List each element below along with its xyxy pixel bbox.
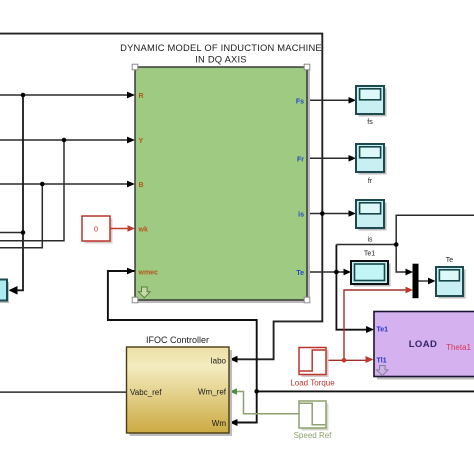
Speed Ref step block [299,401,326,428]
svg-text:Y: Y [139,138,144,145]
wire B branch down-left [0,184,42,248]
svg-text:Te1: Te1 [364,251,375,258]
scope fs [356,86,384,114]
scope fr [356,144,384,172]
arrowhead fs [349,97,357,104]
junction dot Y wire [62,138,67,143]
scope Te1 shadow [354,264,391,287]
induction machine block [135,67,307,300]
arrowhead IFOC Wm_ref green [230,388,238,395]
scope Te [436,267,463,296]
IFOC block shadow [130,350,233,436]
junction dot Te wire [334,270,339,275]
wire Load Torque red [326,290,407,360]
arrowhead IFOC Iabo [230,356,238,363]
wire Y input [0,139,128,141]
wire Fs to scope fs [307,99,350,101]
arrowhead fr [349,155,357,162]
wire mux output to scope Te [419,280,430,282]
arrowhead R [127,92,135,99]
svg-text:R: R [139,93,144,100]
machine badge arrow [139,287,151,298]
induction machine block shadow [138,70,310,303]
wire R input [0,94,128,96]
junction dot R branch [21,230,26,235]
svg-text:Vabc_ref: Vabc_ref [130,388,162,397]
arrowhead left cyan scope [9,286,18,295]
scope fr shadow [359,147,387,175]
constant 0 block [82,216,110,241]
Load Torque step block shadow [302,350,329,377]
wire Wm from off-screen right [257,390,474,392]
svg-text:Te: Te [446,257,454,264]
IFOC block [127,347,230,433]
scope is [356,200,384,228]
left cyan scope block shadow [0,282,9,303]
svg-text:fr: fr [368,178,373,185]
wire Te branch down to LOAD Te1 [336,245,368,330]
svg-text:IFOC Controller: IFOC Controller [146,335,209,345]
scope is shadow [359,203,387,231]
junction dot is wire [320,211,325,216]
arrowhead mux in1 [406,269,414,276]
arrowhead Y [127,137,135,144]
wire wmec feedback [108,271,257,423]
svg-text:Fr: Fr [297,156,304,163]
svg-text:LOAD: LOAD [409,339,438,350]
arrowhead Te scope [428,278,436,285]
mux bar [413,264,419,299]
Load Torque step block [299,348,326,375]
junction dot B wire [40,182,45,187]
wire is to scope is [307,213,350,215]
svg-text:Fs: Fs [296,98,304,105]
junction dot mux feed [394,242,399,247]
constant 0 block shadow [85,219,113,244]
wire Y branch down-left [0,140,64,241]
svg-text:Te1: Te1 [377,327,389,334]
junction dot red load torque [342,358,347,363]
wire Fr to scope fr [307,157,350,159]
svg-text:is: is [367,237,373,244]
junction dot R wire [21,93,26,98]
arrowhead is [349,210,357,217]
arrowhead LOAD Te1 [366,326,374,333]
scope Te1 [351,261,388,284]
svg-text:Wm: Wm [212,419,227,428]
LOAD block [374,312,474,377]
svg-text:Iabo: Iabo [210,357,226,366]
svg-text:Load Torque: Load Torque [290,379,335,388]
svg-text:wk: wk [138,227,148,234]
wire from off-screen right to mux input 1 [396,215,474,272]
left cyan scope block [0,280,7,301]
svg-text:Wm_ref: Wm_ref [198,388,227,397]
arrowhead wk [128,225,136,232]
arrowhead LOAD Tl1 red [366,356,374,363]
selection handle bottom-right [304,297,310,303]
selection handle top-left [132,64,138,70]
wire Vabc_ref to off-screen left [0,391,127,393]
svg-text:fs: fs [367,119,373,126]
svg-text:Theta1: Theta1 [446,343,471,352]
arrowhead Te1 scope [344,269,352,276]
Speed Ref step block shadow [302,404,329,431]
svg-text:IN DQ AXIS: IN DQ AXIS [195,54,247,65]
svg-text:is: is [298,212,304,219]
selection handle top-right [304,64,310,70]
scope Te shadow [439,270,466,299]
arrowhead B [127,181,135,188]
scope fs shadow [359,89,387,117]
arrowhead IFOC Wm [230,419,238,426]
svg-text:Tl1: Tl1 [377,358,387,365]
LOAD badge arrow [377,366,389,376]
junction dot Wm wire [254,389,259,394]
svg-text:DYNAMIC MODEL OF INDUCTION MAC: DYNAMIC MODEL OF INDUCTION MACHINE [120,42,322,53]
LOAD block shadow [377,315,474,380]
wire B input [0,183,128,185]
wk red wire [110,228,129,230]
arrowhead mux in2 red [406,287,414,294]
wire stub joining R branch [0,232,23,234]
svg-text:Te: Te [296,270,304,277]
wire feedback top (is signal to off-screen left) [0,34,322,360]
svg-text:wmec: wmec [138,270,159,277]
arrowhead wmec [127,268,135,275]
svg-text:B: B [139,182,144,189]
svg-text:0: 0 [94,225,98,234]
wire Te to scope Te1 [307,271,345,273]
wire Speed Ref green [236,392,299,414]
selection handle bottom-left [132,297,138,303]
svg-text:Speed Ref: Speed Ref [294,431,333,440]
wire Te branch up to mux [336,244,396,246]
wire R branch down to left scope [10,95,23,290]
